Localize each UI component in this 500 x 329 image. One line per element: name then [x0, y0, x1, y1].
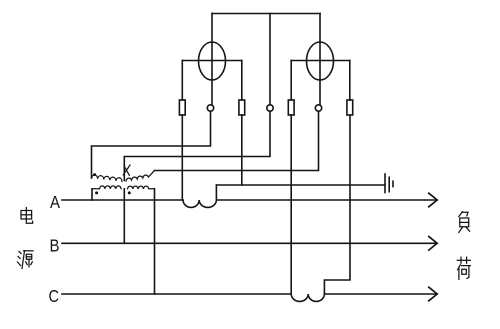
phase line A (source side): [62, 199, 183, 201]
wire T1 primary to phase A line: [91, 189, 93, 200]
current coil L1 in phase A line (two loops): [183, 200, 216, 207]
terminal 2 (current terminal, rect): [239, 100, 245, 115]
terminal 3 (current terminal, rect): [288, 100, 294, 115]
terminal 4 (current terminal, rect): [347, 100, 353, 115]
wattmeter element U2 (right meter element): [291, 14, 350, 105]
wire middle tap from top bus down to voltage common terminal P2: [269, 14, 271, 105]
current coil L2 in phase C line (two loops): [291, 294, 324, 301]
wire voltage lead a: terminal P1 to PT T1 secondary: [92, 111, 211, 178]
terminal P1 (voltage terminal of U1, small circle): [207, 105, 213, 111]
wire current coil L2 up and over to terminal 4: [324, 115, 350, 294]
phase line B: [62, 242, 437, 244]
svg-text:A: A: [50, 192, 60, 212]
terminal P2 (voltage common terminal, small circle): [267, 105, 273, 111]
voltage transformer T2 secondary winding: [126, 171, 155, 182]
wire voltage lead c: terminal P3 to PT T2 secondary: [155, 111, 319, 170]
label 荷 (load, char 2): [457, 257, 470, 279]
wire terminal 3 down to phase C current coil: [290, 115, 292, 294]
polarity dot of T2 primary: [128, 191, 131, 194]
wire T2 primary down to phase C line: [154, 189, 156, 294]
fuse FU (cross mark on secondary common lead): [123, 165, 130, 175]
polarity dot of T1 secondary: [93, 173, 96, 176]
wire terminal 1 down to phase A current coil: [181, 115, 183, 200]
voltage transformer T1 secondary winding: [92, 175, 123, 182]
wire terminal 2 down to earth link node: [241, 115, 243, 185]
wire voltage lead b: terminal P2 to PT secondary common: [124, 111, 270, 180]
polarity dot of T1 primary: [95, 191, 98, 194]
ground (earth symbol, rotated): [385, 174, 393, 193]
label 电 (source, char 1): [21, 208, 33, 224]
arrowhead phase C: [429, 287, 437, 301]
arrowhead phase B: [429, 237, 437, 251]
wire earth link (node between terminal 2 and ground): [216, 184, 385, 186]
wire top bus between meter elements: [212, 13, 320, 15]
label 负 (load, char 1): [459, 212, 470, 233]
wire current coil L1 up and over to terminal 2 node: [215, 185, 217, 200]
terminal 1 (current terminal, rect): [179, 100, 185, 115]
phase line A (load side): [216, 199, 437, 201]
svg-text:B: B: [50, 235, 60, 255]
phase line C (load side): [324, 293, 437, 295]
arrowhead phase A: [429, 193, 437, 207]
wire PT common junction down to phase B line: [123, 189, 125, 244]
svg-text:C: C: [49, 286, 60, 306]
voltage transformer T1 primary winding: [92, 186, 121, 189]
label 源 (source, char 2): [18, 251, 34, 269]
phase line C (source side): [62, 293, 291, 295]
voltage transformer T2 primary winding: [128, 186, 155, 189]
wattmeter element U1 (left meter element): [182, 14, 242, 105]
terminal P3 (voltage terminal of U2, small circle): [315, 105, 321, 111]
